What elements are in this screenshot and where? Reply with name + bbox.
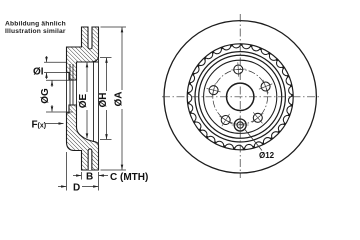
svg-text:ØA: ØA bbox=[114, 92, 125, 107]
svg-text:ØI: ØI bbox=[33, 67, 44, 78]
svg-text:Illustration similar: Illustration similar bbox=[5, 28, 66, 35]
svg-text:Ø12: Ø12 bbox=[259, 151, 275, 160]
svg-text:ØG: ØG bbox=[40, 88, 51, 104]
svg-text:C (MTH): C (MTH) bbox=[110, 172, 148, 183]
svg-text:(x): (x) bbox=[38, 123, 47, 130]
svg-text:D: D bbox=[73, 183, 80, 194]
svg-text:ØE: ØE bbox=[78, 93, 89, 108]
svg-text:Abbildung ähnlich: Abbildung ähnlich bbox=[5, 21, 66, 28]
svg-text:B: B bbox=[86, 172, 93, 183]
svg-text:ØH: ØH bbox=[98, 93, 109, 108]
